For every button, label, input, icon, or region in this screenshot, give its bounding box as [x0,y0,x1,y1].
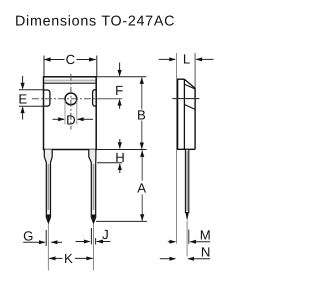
J left arrowhead [84,240,91,244]
left lead [44,150,52,223]
svg-text:K: K [64,251,73,266]
K left arrowhead [49,256,56,260]
side lead inner shade [186,151,188,211]
dim F arrow tails [119,63,121,76]
G arrowhead [39,240,46,244]
svg-text:M: M [200,227,211,242]
svg-text:E: E [18,92,27,107]
dim H shoulder extension line [97,162,122,164]
H top arrowhead [118,142,122,149]
svg-text:A: A [137,180,146,195]
dim K extension lines [47,224,49,271]
side body left edge [177,79,179,149]
C left arrowhead [44,57,51,61]
side body top edge [177,78,184,80]
A top arrowhead [140,150,144,157]
svg-text:L: L [183,52,190,67]
right lead tip [91,215,95,223]
B bottom arrowhead [140,143,144,150]
L right arrowhead [196,57,203,61]
dim M arrow tails [168,241,175,243]
dim H arrow tails [119,139,121,148]
chamfer hatch line [184,84,195,89]
E top arrowhead [21,83,25,90]
side hole level tick [172,98,199,100]
B top arrowhead [140,77,144,84]
dim D extension lines [64,101,66,125]
dim D arrow tails [53,118,65,120]
lead tip extension line [96,220,147,222]
body fill strip (tab shading) [45,80,96,82]
dim E extension lines [19,89,44,91]
svg-text:D: D [66,112,76,127]
side lead [185,150,188,213]
vertical centerline [70,74,72,130]
D right arrowhead [77,117,84,121]
dim B line [141,78,143,110]
dim C extension lines [43,56,45,77]
svg-text:H: H [115,150,125,165]
dim N arrow tails [160,258,175,260]
K right arrowhead [86,256,93,260]
side body right edge [194,88,196,149]
J right arrowhead [96,240,103,244]
svg-text:C: C [66,52,76,67]
dim K lines [49,257,62,259]
horizontal centerline [32,98,97,100]
dim J arrow tails [76,241,90,243]
L/M/N left extension line [176,53,178,244]
side lower hatch line [184,105,195,110]
side lead tip [186,213,189,221]
N left arrowhead [170,257,177,261]
dim E arrow tails [22,76,24,89]
G right arrowhead [51,240,58,244]
svg-text:G: G [23,229,33,244]
M right arrowhead [189,240,196,244]
right lead inner shade [93,164,95,210]
E bottom arrowhead [21,106,25,113]
left lead inner shade [47,164,49,210]
svg-text:B: B [137,108,146,123]
left notch [44,90,50,106]
dim G arrow tails [23,241,45,243]
dim A line [141,150,143,181]
dim L arrow tails [159,58,175,60]
D left arrowhead [58,117,65,121]
side body inner vertical [183,79,185,149]
side body bottom edge [177,148,195,150]
body bottom extension line [97,149,147,151]
svg-text:J: J [102,227,109,242]
H bottom arrowhead [118,163,122,170]
M left arrowhead [170,240,177,244]
dim J edge ticks [90,228,92,245]
dim C lines [44,59,65,61]
tab lower line [44,82,97,84]
svg-text:Dimensions TO-247AC: Dimensions TO-247AC [15,14,175,30]
F bottom arrowhead [118,99,122,106]
body outline [44,77,97,150]
L right extension line [194,53,196,89]
side body chamfer [184,79,195,88]
svg-text:F: F [115,83,123,98]
body top extension line [97,76,147,78]
mounting hole [65,93,77,105]
L left arrowhead [169,57,176,61]
M edge tick [188,230,190,245]
left lead tip [46,215,50,223]
C right arrowhead [89,57,96,61]
N right arrowhead [187,257,194,261]
svg-text:N: N [201,245,211,260]
side lead center extension (N) [186,221,188,257]
F top arrowhead [118,70,122,77]
A bottom arrowhead [140,214,144,221]
dim G edge tick [45,230,47,246]
right notch [93,90,96,107]
right lead [89,150,96,223]
